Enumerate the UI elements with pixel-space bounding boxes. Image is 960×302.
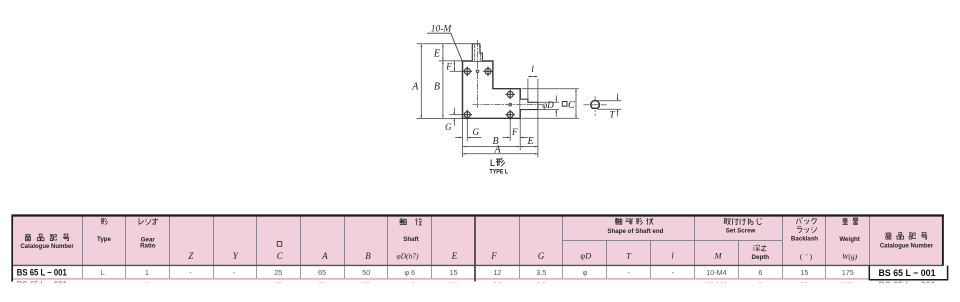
svg-text:L: L [101,268,105,277]
data row 1 [17,268,936,278]
dimension square-C right side [522,89,579,119]
node: mounting hole bottom-left [463,111,471,119]
svg-text:1: 1 [145,268,149,277]
svg-text:6: 6 [758,268,762,277]
dimension F horizontal (outside arrows) [503,137,509,139]
svg-text:TYPE L: TYPE L [490,168,509,175]
svg-text:Depth: Depth [752,254,770,261]
svg-text:W(g): W(g) [842,252,857,261]
col6: square C heading [277,242,282,247]
col9: shaft dia heading [396,218,421,260]
svg-text:F: F [490,251,497,261]
svg-text:G: G [473,127,480,137]
svg-text:φ 6: φ 6 [404,268,415,277]
svg-text:175: 175 [842,268,854,277]
svg-text:10-M4: 10-M4 [706,268,726,277]
svg-text:12: 12 [493,268,501,277]
svg-text:E: E [433,49,440,60]
dimension F vertical [453,62,455,71]
col3: gear ratio heading [139,218,158,249]
svg-text:15: 15 [800,268,808,277]
wire: horizontal centerline output axis [473,104,542,106]
svg-text:50: 50 [362,268,370,277]
svg-text:φD: φD [542,100,554,110]
svg-text:C: C [277,251,284,261]
data row bottom pink border [12,278,869,280]
last column data cell black box [869,266,948,281]
white mask over cut-off bottom [0,283,960,302]
dimension A vertical [420,45,422,118]
svg-text:65: 65 [318,268,326,277]
node: mounting hole bottom-right [506,111,514,119]
svg-text:Shape of Shaft end: Shape of Shaft end [607,228,663,235]
svg-text:E: E [451,251,458,261]
svg-text:-: - [189,268,192,277]
node: mounting hole top-right [484,67,492,75]
col18: backlash heading [791,218,818,262]
svg-text:φD(h7): φD(h7) [396,251,419,260]
svg-text:F: F [445,61,452,71]
wire: extension lines left side [417,44,472,119]
svg-text:Weight: Weight [839,236,860,243]
svg-text:15: 15 [450,268,458,277]
svg-text:Catalogue Number: Catalogue Number [20,244,74,250]
svg-text:φ: φ [583,268,588,277]
col17: depth subheading [752,245,770,261]
svg-text:Set Screw: Set Screw [726,228,756,235]
black outer borders [12,214,944,216]
svg-text:-: - [233,268,236,277]
svg-text:Backlash: Backlash [791,236,818,243]
svg-text:M: M [713,251,722,261]
wire: shaft end view centerlines [584,97,607,116]
svg-text:-: - [627,268,630,277]
dimension phi-D on shaft (outside arrows) [539,102,559,109]
group: set screw [724,218,762,234]
svg-text:10-M: 10-M [431,25,453,35]
node: gearbox body outline [463,61,521,118]
table internal vertical gridlines (header) [83,217,870,266]
dimension T (outside arrows) [598,101,622,110]
svg-text:Ratio: Ratio [140,243,156,250]
col2: type heading [97,218,112,243]
dimension E horizontal [521,146,537,148]
node: small center hole right [509,103,512,106]
wire: leader underline for 10-M label [428,33,466,68]
table header pink background [12,216,942,266]
heavy divider between table halves [474,216,476,282]
svg-text:l: l [531,65,534,75]
svg-text:A: A [411,82,419,93]
dimension B horizontal [463,146,519,148]
node: small center hole top [476,70,479,73]
wire: extension lines bottom [463,110,538,157]
dimension G vertical bottom-left (outside arrows) [453,108,455,115]
header bottom border [12,264,944,266]
wire: hidden bore dashed lines in boss [475,45,481,60]
node: top boss / input shaft [472,44,482,61]
data row 2 (clipped sliver) [17,280,936,290]
svg-text:G: G [445,122,452,132]
group: shape of shaft end [607,218,663,235]
node: mounting hole right-mid [506,90,514,98]
svg-text:C: C [568,100,575,111]
dimension G horizontal (outside arrows) [456,137,462,139]
svg-text:F: F [511,127,518,137]
svg-text:BS 65 L − 001: BS 65 L − 001 [17,268,67,278]
svg-text:A: A [321,251,328,261]
svg-text:T: T [609,110,615,120]
wire: vertical centerline input axis [477,41,479,108]
svg-text:Shaft: Shaft [403,236,418,243]
dimension A horizontal [463,153,537,155]
svg-text:φD: φD [580,251,592,261]
svg-text:Type: Type [97,236,112,243]
dimension E vertical [442,45,444,61]
svg-text:Catalogue Number: Catalogue Number [880,244,934,250]
svg-text:3.5: 3.5 [536,268,546,277]
dimension l over output shaft [528,79,538,102]
dimension B vertical [442,62,444,118]
svg-text:25: 25 [274,268,282,277]
svg-text:( ′ ): ( ′ ) [800,252,813,261]
node: mounting hole top-left [463,67,471,75]
col1: catalogue number heading [20,234,74,250]
svg-text:-: - [672,268,675,277]
svg-text:G: G [538,251,545,261]
svg-text:BS 65 L − 001: BS 65 L − 001 [879,268,936,278]
table data row vertical gridlines [83,266,826,279]
svg-text:E: E [526,136,533,147]
node: shaft end view circle with flat [591,101,600,109]
col20: catalogue number heading (right) [880,232,934,249]
col19: weight heading [839,218,860,261]
node: right output shaft [520,99,538,109]
svg-text:B: B [434,82,440,93]
svg-text:B: B [365,251,371,261]
svg-text:A: A [493,144,501,155]
